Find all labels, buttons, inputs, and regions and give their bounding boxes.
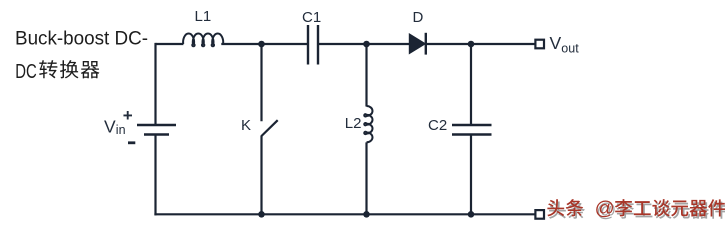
svg-text:V: V (550, 33, 562, 53)
wire switch lower vertical (260, 136, 262, 215)
node: switch bottom junction (258, 211, 265, 218)
wire C1 to diode (318, 43, 410, 45)
wire L2 lower vertical (365, 142, 367, 214)
svg-text:Buck-boost DC-: Buck-boost DC- (15, 28, 148, 49)
svg-text:@: @ (595, 197, 615, 219)
wire switch top stub (260, 44, 262, 121)
node: L2 top junction (363, 41, 370, 48)
node: C2 bottom junction (468, 211, 475, 218)
svg-text:DC: DC (15, 60, 37, 83)
capacitor C2 (452, 125, 492, 135)
wire left vertical lower (154, 135, 156, 216)
terminal bottom-right square (535, 210, 544, 219)
svg-text:V: V (104, 117, 116, 137)
svg-text:+: + (123, 106, 133, 125)
wire top-left horizontal (156, 43, 184, 45)
terminal Vout square (535, 40, 544, 49)
svg-text:out: out (561, 42, 579, 56)
wire C2 lower vertical (470, 135, 472, 215)
battery V_in plates (137, 125, 176, 135)
svg-text:in: in (116, 123, 126, 137)
capacitor C1 (308, 25, 318, 65)
wire bottom horizontal (154, 213, 535, 215)
svg-text:C1: C1 (302, 9, 321, 26)
watermark: 头条 @李工谈元器件 (549, 200, 725, 222)
wire diode to Vout terminal (427, 43, 536, 45)
node: C2 top junction (468, 41, 475, 48)
inductor L2 (364, 106, 372, 142)
label minus sign (128, 141, 135, 144)
inductor L1 (183, 34, 223, 47)
node: switch top junction (258, 41, 265, 48)
wire L1 to C1 (221, 43, 308, 45)
svg-text:D: D (413, 9, 424, 26)
wire C2 top vertical (470, 44, 472, 125)
node: L2 bottom junction (363, 211, 370, 218)
svg-text:L1: L1 (195, 8, 212, 25)
wire left vertical upper (154, 43, 156, 125)
wire L2 top stub (365, 44, 367, 107)
svg-text:K: K (241, 117, 251, 134)
svg-text:L2: L2 (345, 115, 362, 132)
switch K blade (262, 120, 278, 136)
diode D (410, 33, 426, 55)
svg-text:C2: C2 (428, 117, 447, 134)
